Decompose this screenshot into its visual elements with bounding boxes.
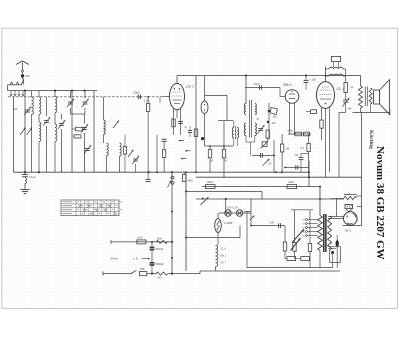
wire top signal rail	[8, 90, 97, 92]
capacitor C27 2nF	[250, 221, 285, 228]
svg-text:5000pF: 5000pF	[156, 263, 165, 266]
wire vertical input 1	[13, 97, 15, 172]
wire vertical 251 psu	[250, 217, 252, 226]
capacitor C19 100pF	[267, 121, 276, 125]
transformer T1 core	[324, 214, 326, 252]
svg-text:100: 100	[272, 122, 277, 125]
svg-text:L.E: L.E	[134, 257, 138, 261]
svg-text:500: 500	[158, 277, 163, 280]
svg-text:0,5M: 0,5M	[288, 131, 293, 133]
wire AZ1 right bracket	[357, 113, 362, 226]
label 5nF	[348, 108, 353, 111]
terminal arrow 2	[185, 150, 191, 152]
tuning capacitor C3	[67, 91, 74, 114]
label 0,3M	[144, 100, 150, 103]
svg-text:0,1µF: 0,1µF	[29, 175, 36, 179]
wire horizontal 146	[205, 145, 234, 147]
wire CL4 grid cap riser	[325, 67, 327, 82]
label 3nF	[25, 74, 30, 78]
resistor R13	[301, 134, 311, 177]
tube AZ1 envelope	[344, 212, 358, 226]
coil IFT lower right	[255, 123, 257, 136]
label 50Hz	[111, 257, 119, 261]
tuning capacitor C4	[82, 91, 89, 114]
coil speaker secondary	[369, 88, 372, 104]
switch S1 band contact	[20, 128, 26, 136]
wire heater feed line 199	[196, 198, 344, 200]
label AZ1	[344, 228, 352, 232]
switch S3 contact	[113, 121, 119, 129]
junction dot AVC	[139, 96, 141, 98]
wire antenna to selector	[8, 85, 22, 91]
trimmer C5	[58, 114, 65, 136]
wire small tube top	[204, 76, 206, 101]
capacitor C23 on HT rail	[304, 74, 317, 90]
capacitor C20	[261, 153, 263, 158]
svg-text:SI/6: SI/6	[140, 268, 145, 271]
IF transformer core	[249, 100, 251, 138]
switch tone arrow	[263, 159, 270, 166]
resistor R6 cathode	[172, 119, 175, 127]
coil 1000 ohm	[156, 238, 168, 244]
label CL4	[337, 87, 345, 91]
wire tone block left	[326, 69, 330, 76]
wire vertical 186 psu	[185, 172, 187, 271]
label 25	[269, 163, 272, 166]
voltage selector arrow 2	[291, 238, 301, 251]
svg-text:0,1M: 0,1M	[137, 236, 143, 239]
tube CF7 envelope	[170, 83, 185, 109]
wire CF7 cathode leads	[174, 109, 181, 135]
choke filter top bar	[344, 193, 357, 195]
resistor R3	[123, 135, 126, 172]
coil mains choke	[156, 272, 172, 279]
capacitor C26 line filter lower	[150, 263, 165, 274]
svg-text:10n: 10n	[295, 154, 300, 157]
wire line 191	[186, 191, 262, 199]
svg-text:4nF: 4nF	[348, 108, 353, 111]
coil choke filter	[330, 196, 357, 199]
resistor R11	[295, 132, 302, 136]
resistor R8	[222, 146, 225, 177]
variable capacitor C22	[342, 93, 349, 113]
svg-text:2nF: 2nF	[270, 221, 275, 225]
phono jack terminals	[168, 176, 175, 187]
wire vertical 172 psu	[171, 172, 173, 275]
coil IFT upper right	[255, 104, 257, 115]
wire mains line to psu	[172, 271, 340, 274]
wire AF line	[252, 154, 275, 156]
trimmer C6	[81, 114, 88, 141]
coil speaker field winding	[359, 76, 363, 109]
svg-text:CF 7: CF 7	[186, 85, 195, 89]
label CL4 tap	[221, 248, 227, 251]
wire vertical input 2	[24, 91, 26, 173]
speaker cone	[380, 80, 390, 115]
coil IFT lower left	[244, 123, 246, 136]
resistor R12	[303, 132, 309, 136]
label 0,5M	[288, 131, 293, 133]
label 50	[257, 119, 260, 121]
resistor R23 horizontal	[301, 257, 310, 261]
svg-text:0,1: 0,1	[301, 147, 305, 150]
resistor R2 padder	[74, 135, 81, 138]
tube EB1 envelope	[285, 90, 299, 104]
switch S6 mains	[131, 270, 137, 273]
tube CL4 envelope	[317, 82, 335, 109]
coil IFT upper left	[244, 104, 246, 115]
fuse F2 GW/L	[287, 181, 297, 189]
speaker magnet body	[374, 90, 380, 104]
coil L3 wave band coil	[39, 115, 41, 173]
resistor R20	[293, 210, 296, 259]
wire vertical 157	[156, 135, 158, 172]
wire vertical 247	[244, 212, 251, 268]
dial lamp 2	[236, 210, 243, 217]
wire EB1 grid	[280, 88, 285, 97]
coil tone filter lower	[329, 74, 343, 76]
junction dots on top rail	[24, 90, 86, 92]
resistor R14 tone top	[331, 56, 340, 66]
svg-text:100: 100	[273, 116, 278, 119]
tube CL4 electrodes	[319, 87, 331, 104]
coil L4 oscillator primary	[55, 91, 57, 113]
capacitor C24 series	[284, 165, 298, 169]
coil L1 antenna primary	[32, 91, 34, 173]
antenna insulator circle	[21, 70, 23, 72]
fuse F1 (M/W)	[206, 181, 216, 189]
capacitor C11	[162, 139, 167, 141]
resistor R4 grid leak	[146, 96, 149, 179]
svg-text:Körting: Körting	[368, 130, 374, 149]
svg-text:La: La	[14, 107, 18, 111]
wire tone block right	[343, 69, 346, 82]
switch S4 contact	[128, 150, 134, 158]
rectifier filament winding	[345, 204, 353, 211]
coil L8	[120, 143, 122, 172]
coil small ground lead	[25, 178, 26, 184]
tube AZ1 electrodes	[346, 214, 356, 225]
coil L7	[107, 143, 109, 172]
wire CF7 grid lead	[160, 97, 170, 104]
svg-text:1M: 1M	[224, 161, 227, 163]
wire small tube bottom	[204, 114, 206, 147]
wire transformer bottoms	[320, 247, 341, 268]
valve data table	[61, 200, 122, 216]
potentiometer volume	[261, 141, 269, 149]
svg-text:U 4098: U 4098	[224, 221, 233, 225]
svg-text:−(M/W): −(M/W)	[206, 181, 214, 184]
switch contacts antenna row	[10, 82, 24, 85]
capacitor C13 cathode bypass	[178, 122, 183, 124]
label LE	[134, 257, 151, 261]
svg-text:GW/L: GW/L	[288, 181, 295, 184]
coil tone filter upper	[329, 67, 343, 69]
trimmer C2	[43, 97, 50, 172]
label 10V 0,1A	[227, 206, 238, 210]
terminal arrow 1	[179, 140, 185, 142]
label CF7	[186, 85, 195, 89]
wire resistor row	[285, 258, 310, 260]
resistor R1 padder	[72, 127, 85, 131]
IF transformer 1 core	[235, 126, 237, 139]
coil L6 oscillator tracking	[104, 97, 106, 143]
wire transformer primary top	[319, 186, 321, 216]
ground chassis symbol	[21, 184, 30, 194]
svg-text:EB 1: EB 1	[284, 83, 292, 87]
wire AZ1 anode twin lines	[328, 216, 344, 218]
trimmer C7	[84, 145, 91, 154]
electrolytic blob 1	[336, 235, 339, 268]
svg-text:EB 1: EB 1	[221, 255, 227, 258]
wire lamp right drop	[250, 199, 255, 220]
svg-text:2M: 2M	[210, 161, 213, 163]
wire AZ1 bottom	[343, 225, 362, 227]
tube EB1 electrodes	[289, 91, 295, 99]
wire HT rail top	[177, 75, 361, 77]
junction dot detector bus	[275, 171, 283, 173]
svg-text:5000pF: 5000pF	[156, 248, 165, 251]
coil IFT1 left	[232, 121, 234, 147]
electrolytic blob 2	[331, 251, 334, 268]
title Novum 38 GB 2207 GW	[374, 146, 386, 260]
label CF7 tap	[221, 262, 227, 265]
capacitor C17 10nF	[245, 82, 280, 90]
wire AVC line dashed	[8, 96, 160, 98]
resistor R18 0,1M	[137, 236, 146, 244]
resistor R24 on screen line	[194, 129, 197, 137]
wire vertical column 61	[61, 136, 63, 173]
transformer T1 secondary winding	[328, 216, 332, 250]
coil heater chain resistor	[216, 245, 219, 272]
label U4098	[224, 221, 233, 225]
svg-text:3nF: 3nF	[25, 74, 30, 78]
capacitor 3nF antenna series cap	[21, 72, 24, 79]
antenna	[16, 61, 29, 70]
wire vertical column 94	[93, 91, 95, 173]
fuse rectifier line	[202, 186, 320, 188]
diode load polygon	[271, 108, 278, 115]
svg-text:0,1µF: 0,1µF	[310, 79, 317, 82]
voltage selector arrow 1	[292, 229, 304, 242]
trimmer C8	[132, 156, 139, 173]
resistor R10 1M	[280, 134, 290, 172]
barretter tube U4098	[215, 213, 222, 245]
wire speaker bottom	[353, 104, 390, 116]
wire AF vertical 274	[273, 140, 275, 172]
svg-text:50 Hz: 50 Hz	[111, 257, 119, 261]
junction dots chassis bus left	[24, 171, 197, 173]
wire grid net L	[205, 95, 234, 149]
resistor R16	[320, 120, 323, 140]
switch S5 mains on volume pot	[201, 197, 209, 205]
label 2M	[210, 161, 227, 163]
wire EB1 cathode leads	[290, 102, 295, 134]
wire line 167	[285, 166, 309, 168]
terminal arrow 3	[181, 158, 187, 160]
resistor R15	[344, 82, 354, 92]
wire EB1 output net	[288, 133, 311, 135]
svg-text:Novum 38 GB 2207 GW: Novum 38 GB 2207 GW	[374, 146, 386, 260]
title Körting	[368, 130, 374, 149]
wire vertical column 72	[71, 91, 73, 173]
wire lamp drop	[219, 199, 251, 213]
capacitor C14 screen bypass	[185, 126, 193, 137]
wire screen feed	[195, 76, 197, 173]
wire RC line	[111, 240, 172, 244]
wire CL4 anode leads down	[322, 108, 330, 178]
svg-text:10nF: 10nF	[254, 82, 260, 86]
svg-text:1000: 1000	[157, 238, 163, 241]
wire gang link	[71, 113, 86, 115]
dial lamp 1	[225, 210, 232, 217]
svg-text:CF 7: CF 7	[221, 262, 227, 265]
trimmer C1	[24, 107, 31, 116]
tube CF7 electrodes	[172, 88, 182, 103]
wire anode feed to IFT	[245, 74, 247, 103]
wire detector vertical	[268, 103, 270, 140]
junction dot 225 heater	[225, 198, 227, 200]
svg-text:CL 4: CL 4	[337, 87, 345, 91]
voltage selector taps	[302, 219, 318, 238]
speaker transformer core	[365, 87, 367, 107]
wire vertical 309 psu	[308, 161, 310, 187]
resistor R5	[162, 142, 165, 173]
capacitor C21 10nF	[295, 154, 309, 173]
wire choke right	[357, 195, 362, 197]
resistor R7	[208, 146, 211, 172]
wire mains lead	[103, 272, 131, 276]
coil L2 antenna secondary	[39, 91, 41, 115]
wire psu bus 267	[247, 267, 333, 269]
svg-text:CL 4: CL 4	[221, 248, 227, 251]
capacitor C9 50pF	[134, 90, 141, 99]
svg-text:AZ 1: AZ 1	[344, 228, 352, 232]
label EB1 tap	[221, 255, 227, 258]
transformer T1 primary winding	[318, 216, 323, 251]
capacitor C28 blob	[201, 137, 205, 140]
wire psu top link	[291, 209, 313, 211]
wire chassis bus	[14, 171, 310, 173]
wire CF7 top cap	[176, 76, 178, 84]
capacitor C10	[146, 180, 151, 182]
resistor R22 horizontal	[287, 257, 296, 261]
label EB1	[284, 83, 292, 87]
capacitor C12 mains filter	[22, 172, 36, 179]
fuse SI	[139, 268, 146, 276]
svg-text:50pF: 50pF	[134, 90, 140, 94]
wire IF bottom links	[246, 136, 255, 156]
coil L5 oscillator secondary	[55, 113, 57, 173]
wire feedback drop	[339, 112, 346, 177]
svg-text:4000: 4000	[188, 180, 194, 183]
coil antenna input choke	[23, 79, 24, 83]
switch S2 band contact	[27, 128, 33, 136]
capacitor C25 line filter upper	[150, 242, 165, 263]
resistor R19	[283, 226, 286, 259]
coil IFT1 right	[237, 127, 239, 146]
junction dot RC	[151, 241, 153, 243]
wire lower bus	[196, 176, 362, 178]
capacitor C18 100pF	[268, 110, 278, 119]
svg-text:0,2M: 0,2M	[144, 100, 150, 103]
wire barretter feed	[186, 226, 240, 238]
resistor R21	[308, 210, 311, 268]
junction dot mains	[147, 273, 156, 275]
resistor R17 small	[306, 110, 317, 114]
resistor R9	[266, 130, 269, 142]
svg-text:10V 0,1A: 10V 0,1A	[227, 206, 238, 210]
switch contacts band selector row	[10, 91, 24, 96]
label La	[14, 107, 18, 111]
wire vertical column 84	[84, 141, 86, 172]
wire choke left drop	[335, 199, 337, 217]
resistor R25 4000	[183, 172, 194, 182]
tube double diode small envelope	[201, 101, 208, 114]
trimmer C16	[257, 125, 264, 134]
